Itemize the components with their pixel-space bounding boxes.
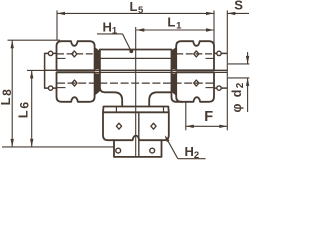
dimension L1 (136, 29, 214, 31)
branch flare line (104, 106, 169, 108)
branch flare right diagonal (167, 107, 170, 113)
right lower tube stub (214, 87, 227, 89)
wedge upper right (171, 47, 176, 69)
left connector bracket (45, 53, 57, 88)
body top edge (100, 49, 172, 51)
knurl diamond lower left (72, 80, 77, 86)
wedge upper left (95, 47, 100, 69)
extension line top (L8) (8, 39, 61, 41)
joint line lower (57, 71, 228, 73)
extension line mid-plane (L6 top) (27, 69, 45, 71)
body right edge (172, 50, 183, 102)
extension line L5 left (56, 10, 58, 40)
dimension S (227, 12, 249, 14)
hidden line upper right nut (176, 53, 213, 55)
knurl diamond branch right (151, 123, 156, 129)
extension line S / tube end / F right (226, 10, 228, 130)
branch flare tick right (163, 107, 165, 113)
right upper tube stub (214, 52, 227, 54)
knurl diamond upper left (72, 51, 77, 57)
knurl diamond branch left (116, 123, 121, 129)
lower right nut (176, 72, 214, 101)
extension line F left (185, 101, 187, 130)
left lower port circle (48, 86, 52, 90)
centerline of branch (L1 extension) (135, 27, 137, 157)
knurl diamond lower right (194, 80, 199, 86)
svg-text:S: S (234, 0, 243, 13)
svg-text:L8: L8 (0, 88, 14, 106)
hidden line upper left nut (57, 53, 95, 55)
dimension F (186, 125, 228, 127)
right lower tube circle (217, 86, 221, 90)
knurl diamond upper right (194, 51, 199, 57)
tube tick upper right (206, 57, 214, 59)
skirt circle right (150, 148, 155, 153)
lower left nut (57, 72, 95, 101)
dimension L6 (31, 70, 33, 146)
left upper port circle (48, 51, 52, 55)
wedge lower right (171, 73, 176, 95)
skirt circle left (116, 148, 121, 153)
right upper tube circle (217, 51, 221, 55)
extension line right end (213, 10, 215, 44)
body bore line upper (100, 57, 172, 59)
hidden line lower ports (57, 82, 214, 84)
upper left nut (57, 41, 95, 70)
wedge lower left (95, 73, 100, 95)
branch flare left diagonal (102, 107, 105, 113)
body left edge (100, 50, 122, 107)
branch nut mid edge (138, 112, 140, 157)
dimension phi d2 (247, 52, 249, 64)
joint line upper (45, 69, 227, 71)
tube tick upper left (57, 57, 66, 59)
tube tick lower left (57, 87, 66, 89)
dimension L8 (11, 40, 13, 147)
branch skirt (114, 140, 162, 157)
body bottom right (149, 92, 171, 106)
upper right nut (176, 41, 214, 70)
branch flare tick left (115, 107, 117, 113)
tube tick lower right (206, 87, 214, 89)
branch nut H2 (103, 112, 169, 140)
extension lines phi d2 (228, 63, 250, 65)
svg-text:F: F (204, 109, 213, 125)
dimension L5 (57, 12, 214, 14)
svg-text:L6: L6 (16, 100, 32, 118)
extension line bottom (L8/L6) (2, 146, 115, 148)
